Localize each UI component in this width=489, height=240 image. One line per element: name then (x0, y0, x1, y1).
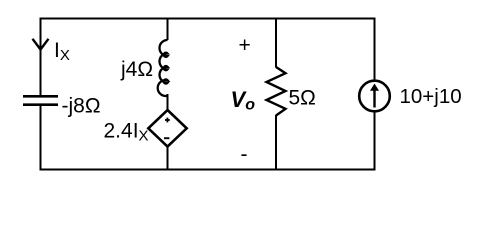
svg-text:+: + (239, 34, 251, 57)
wire: middle branch top segment (167, 18, 169, 41)
svg-text:j4Ω: j4Ω (120, 58, 153, 81)
wire: left branch lower segment (40, 105, 42, 171)
dependent source diamond 2.4IX (148, 110, 186, 147)
svg-text:IX: IX (54, 39, 70, 64)
wire: resistor branch top segment (275, 18, 277, 68)
svg-text:5Ω: 5Ω (289, 87, 316, 110)
inductor j4Ohm coil (158, 40, 168, 96)
current source circle (359, 81, 390, 112)
minus sign inside diamond (164, 137, 169, 139)
current source arrow (up) (373, 89, 375, 108)
svg-text:10+j10: 10+j10 (400, 85, 462, 108)
resistor 5Ohm zigzag (267, 67, 286, 116)
svg-text:Vo: Vo (231, 87, 256, 114)
wire: resistor branch bottom segment (275, 115, 277, 171)
svg-text:2.4IX: 2.4IX (104, 120, 149, 145)
wire: right branch bottom segment (374, 110, 376, 171)
wire: middle branch between coil and source (167, 94, 169, 111)
capacitor -j8Ohm plates (23, 96, 58, 104)
wire: bottom rail (40, 169, 375, 171)
svg-text:-j8Ω: -j8Ω (62, 95, 101, 118)
plus sign inside diamond (165, 118, 170, 123)
svg-text:-: - (241, 143, 248, 166)
wire: left branch upper segment (40, 18, 42, 97)
wire: right branch top segment (374, 18, 376, 83)
wire: middle branch bottom segment (167, 146, 169, 171)
wire: top rail (40, 18, 375, 20)
current arrow IX (downward open V) (33, 39, 49, 50)
